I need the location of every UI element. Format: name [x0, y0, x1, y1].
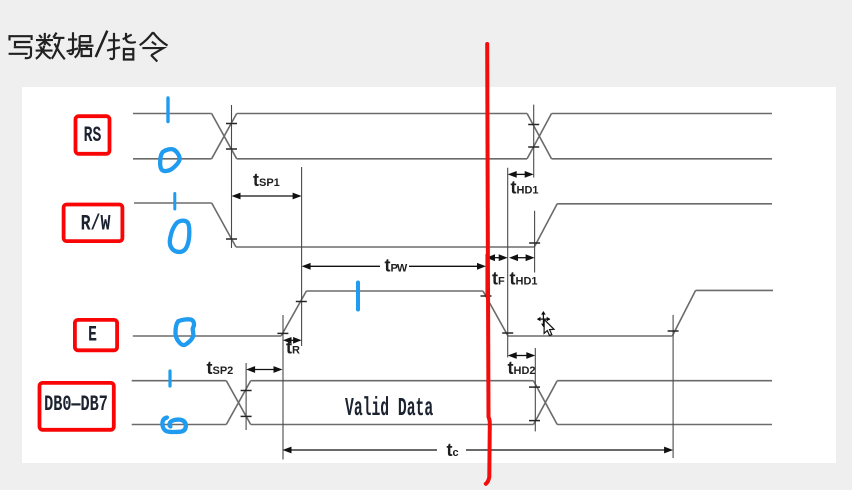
dim line B x=301.6 — [301, 167, 303, 346]
tick E rise1 high — [296, 301, 307, 303]
wire RS rails right — [552, 114, 773, 159]
tick RW rise — [529, 242, 540, 244]
tick RW fall — [226, 238, 237, 240]
svg-text:R/W: R/W — [81, 211, 111, 236]
arrow tF — [486, 254, 508, 261]
E rising edge 1 — [281, 291, 306, 336]
tick RS X1 lower — [226, 148, 237, 150]
wire RW low rail — [236, 246, 534, 248]
blue teardrop on RW low — [170, 221, 189, 252]
tick DB X2 upper — [529, 386, 540, 388]
arrow tPW — [302, 263, 486, 270]
dim line F x=534.6 — [534, 211, 536, 273]
dim line D x=533.7 — [533, 105, 535, 178]
red box E — [75, 320, 117, 350]
DB crossover 1 — [226, 381, 250, 425]
wire E low rail left — [133, 335, 281, 337]
dim line tSP2-left x=246.1 — [245, 363, 247, 430]
blue blob on RS low — [160, 149, 180, 171]
DB crossover 2 — [534, 381, 558, 425]
tick E rise2 — [668, 330, 679, 332]
arrow tHD2 — [508, 352, 536, 359]
tick DB X2 lower — [529, 420, 540, 422]
char 写 — [9, 36, 32, 58]
arrow tHD1 mid — [509, 254, 535, 261]
wire DB rails left — [132, 381, 227, 425]
wire DB rails middle — [251, 381, 534, 425]
svg-text:RS: RS — [84, 122, 102, 148]
tick RS X2 lower — [528, 146, 539, 148]
wire E high rail — [306, 290, 483, 292]
wire E high rail right — [696, 289, 773, 291]
dim line H x=486 — [485, 254, 487, 298]
red box RS — [76, 116, 110, 154]
wire DB rails right — [557, 381, 772, 425]
char 据 — [67, 32, 94, 57]
wire RW high rail left — [134, 202, 212, 204]
wire RW high rail right — [557, 203, 772, 205]
arrow tR — [283, 337, 302, 344]
E rising edge 2 — [672, 290, 695, 336]
red box DB0-DB7 — [40, 383, 114, 430]
blue tick on E high — [356, 283, 360, 310]
tick RS X1 upper — [226, 123, 237, 125]
dim line HD2-right x=535.3 — [534, 348, 536, 431]
char slash — [96, 31, 108, 57]
svg-text:Valid Data: Valid Data — [345, 395, 433, 423]
svg-text:E: E — [88, 322, 97, 348]
wire RS rails middle — [237, 114, 527, 159]
blue shield blob on E — [175, 319, 194, 345]
arrow tSP1 — [232, 193, 302, 200]
tick RS X2 upper — [528, 124, 539, 126]
RS crossover 1 — [212, 114, 237, 159]
tick E rise1 low — [277, 332, 288, 334]
wire RS bottom rail left — [133, 158, 212, 160]
char 令 — [140, 32, 168, 61]
white panel — [22, 87, 836, 463]
red box RW — [64, 205, 123, 242]
arrow tSP2 — [246, 366, 282, 373]
tick DB X1 lower — [241, 415, 252, 417]
svg-text:DB0—DB7: DB0—DB7 — [44, 391, 108, 417]
RW rising edge — [534, 204, 557, 247]
E falling edge — [483, 291, 508, 336]
arrow tc — [283, 447, 674, 454]
dim line A x=231.5 — [231, 105, 233, 248]
blue tick on DB high — [168, 371, 171, 386]
char 指 — [107, 33, 136, 60]
blue tick on RS high — [166, 98, 169, 122]
wire E low rail 2 — [508, 335, 672, 337]
dim line E2 x=507.7 — [507, 168, 509, 358]
dim line G x=673.1 — [672, 315, 674, 458]
blue tick on RW high — [173, 194, 176, 210]
tick DB X1 upper — [241, 390, 252, 392]
RW falling edge — [212, 203, 236, 247]
arrow tHD1 top — [508, 171, 534, 178]
char 数 — [36, 33, 65, 60]
RS crossover 2 — [527, 114, 551, 159]
tick E fall high — [481, 295, 492, 297]
wire RS top rail left — [133, 113, 212, 115]
dim line C x=283 — [282, 315, 284, 460]
title 写数据/指令 — [9, 31, 168, 62]
tick E fall low — [502, 332, 513, 334]
blue 6-loop on DB low — [162, 418, 185, 433]
